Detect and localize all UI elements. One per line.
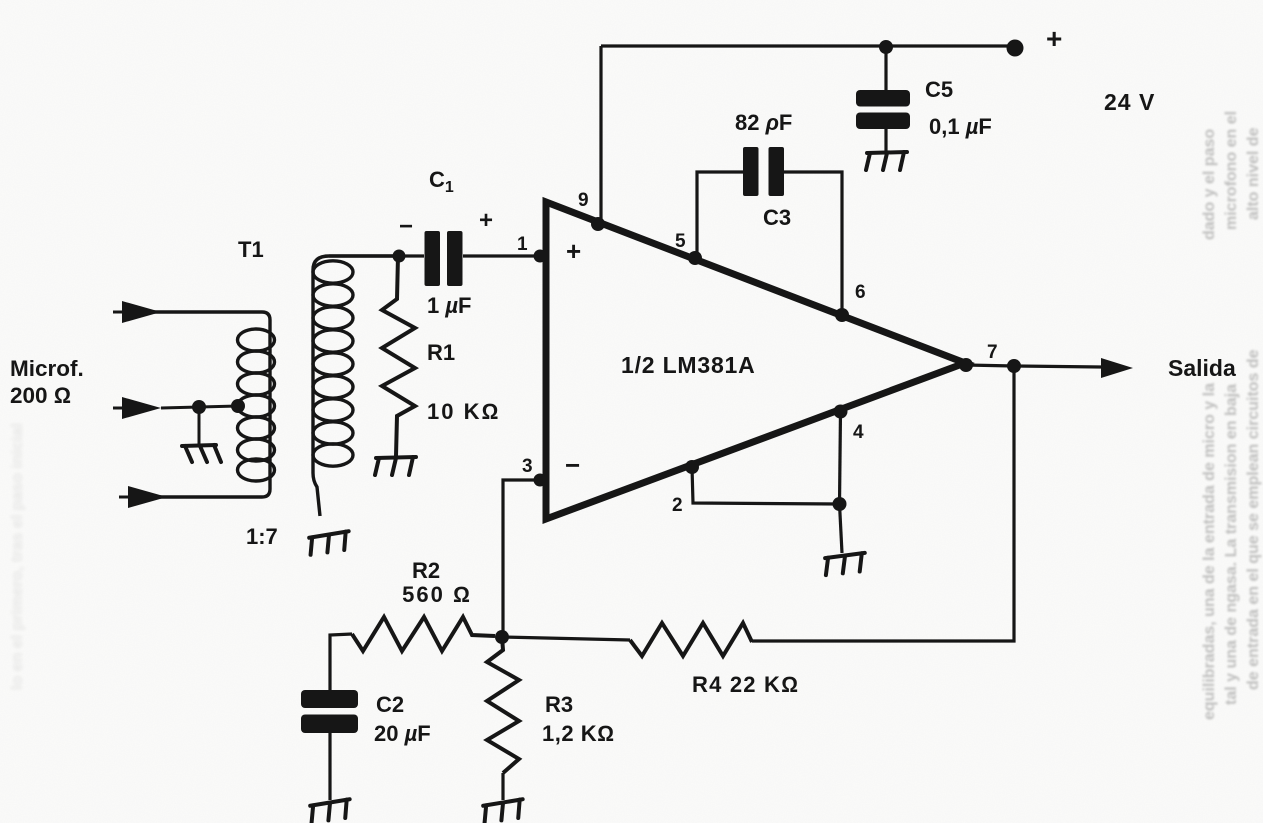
svg-text:3: 3	[522, 456, 533, 477]
svg-text:1 µF: 1 µF	[427, 293, 472, 318]
wire: vertical from rail down to pin 9	[599, 46, 602, 224]
wire: C5 stem upper	[884, 46, 887, 90]
wire: C1 right lead to pin 1	[463, 254, 540, 257]
svg-text:tal y una de ngasa. La transmi: tal y una de ngasa. La transmision en ba…	[1223, 384, 1240, 705]
wire: secondary top lead to C1 junction	[329, 254, 399, 257]
svg-text:R1: R1	[427, 340, 455, 365]
capacitor C2 plates	[301, 690, 358, 708]
supply terminal node	[1007, 40, 1024, 57]
wire: R2 left lead down to C2	[330, 634, 352, 690]
svg-text:0,1 µF: 0,1 µF	[929, 114, 992, 139]
wire: C2 lower stem to ground	[328, 733, 331, 800]
svg-text:6: 6	[855, 282, 866, 303]
resistor R4 22 Kohm	[630, 623, 752, 656]
svg-text:560 Ω: 560 Ω	[402, 582, 472, 607]
input arrow bottom	[119, 496, 129, 499]
wire: pin 3 lead left and down to feedback node	[503, 480, 540, 637]
transformer T1 primary frame	[153, 312, 270, 497]
junction node tap left	[192, 400, 206, 414]
svg-text:equilibradas, una de la entrad: equilibradas, una de la entrada de micro…	[1201, 383, 1218, 720]
faint print bleed left edge	[9, 423, 26, 690]
svg-text:lo en el primero, tras el paso: lo en el primero, tras el paso inicial	[9, 423, 26, 690]
pin 2 node	[685, 460, 699, 474]
svg-text:4: 4	[853, 422, 864, 443]
input arrow middle	[113, 407, 123, 410]
svg-text:microfono en el: microfono en el	[1223, 111, 1240, 230]
wire: pin 7 output lead	[966, 365, 1101, 367]
svg-text:2: 2	[672, 495, 683, 516]
output arrow Salida	[1101, 358, 1133, 378]
svg-text:1,2 KΩ: 1,2 KΩ	[542, 721, 614, 746]
svg-text:dado y el paso: dado y el paso	[1201, 129, 1218, 240]
input arrow top	[113, 311, 123, 314]
wire: node to R4 left	[502, 637, 630, 640]
svg-text:7: 7	[987, 342, 998, 363]
ground under C2	[309, 799, 352, 823]
wire: pin 4 down	[840, 412, 841, 505]
transformer T1 secondary loops	[313, 261, 353, 466]
faint print bleed right edge	[1201, 111, 1262, 720]
junction node at C5	[879, 40, 893, 54]
svg-text:9: 9	[578, 190, 589, 211]
junction node tap at coil	[231, 399, 245, 413]
svg-text:20 µF: 20 µF	[374, 721, 431, 746]
wire: pin2/4 node to ground	[840, 504, 843, 553]
svg-text:−: −	[565, 450, 580, 480]
svg-text:Microf.: Microf.	[10, 356, 84, 381]
svg-text:1:7: 1:7	[246, 524, 278, 549]
wire: C3 right leg to pin 6	[784, 172, 842, 315]
pin 5 node	[688, 251, 702, 265]
svg-text:de entrada en el que se emplea: de entrada en el que se emplean circuito…	[1245, 349, 1262, 690]
svg-text:1: 1	[517, 234, 528, 255]
ground under pins 2/4	[824, 553, 867, 575]
svg-text:+: +	[1046, 23, 1062, 54]
svg-text:+: +	[479, 207, 493, 234]
svg-text:alto nivel de: alto nivel de	[1245, 127, 1262, 220]
wire: tap ground stem	[198, 408, 201, 444]
wire: middle arrow to tap	[161, 406, 238, 408]
resistor R1 10 Kohm	[382, 256, 415, 456]
capacitor C3 plates	[743, 147, 759, 196]
svg-text:24 V: 24 V	[1104, 89, 1155, 115]
pin 4 node	[834, 405, 848, 419]
svg-text:C5: C5	[925, 77, 953, 102]
resistor R2 560 ohm	[352, 617, 495, 651]
output junction node	[1007, 359, 1021, 373]
svg-text:C3: C3	[763, 205, 791, 230]
feedback junction node	[495, 630, 509, 644]
wire: output node down to R4	[752, 366, 1014, 641]
pin 6 node	[835, 308, 849, 322]
wire: pin 2 down and right	[692, 467, 839, 504]
svg-text:Salida: Salida	[1168, 355, 1236, 381]
resistor R3 1,2 Kohm	[487, 637, 519, 773]
pin 1 node	[534, 250, 547, 263]
ground at transformer tap	[182, 445, 221, 462]
pin 7 node	[959, 358, 973, 372]
svg-text:+: +	[566, 236, 581, 266]
op-amp U1 1/2 LM381A triangle	[546, 202, 965, 519]
svg-text:200 Ω: 200 Ω	[10, 383, 71, 408]
capacitor C1 plates	[425, 231, 441, 286]
pin 9 node	[591, 217, 605, 231]
svg-text:T1: T1	[238, 237, 264, 262]
wire: R3 lower stem to ground	[501, 773, 504, 800]
ground under R1	[375, 457, 416, 475]
junction node pins 2/4	[833, 497, 847, 511]
svg-text:−: −	[399, 213, 413, 240]
svg-text:1/2 LM381A: 1/2 LM381A	[621, 352, 756, 378]
wire: C5 stem lower	[884, 129, 887, 151]
pin 3 node	[534, 474, 547, 487]
ground under secondary	[308, 531, 351, 555]
ground under R3	[482, 799, 525, 823]
wire: C3 left leg from pin 5	[697, 172, 743, 258]
junction node at C1/R1/secondary	[393, 250, 406, 263]
capacitor C5 plates	[856, 90, 910, 107]
svg-text:82 ρF: 82 ρF	[735, 110, 792, 135]
wire: C1 left lead	[399, 254, 424, 257]
transformer T1 secondary frame	[313, 256, 399, 516]
transformer T1 primary loops	[238, 329, 275, 481]
svg-text:R2: R2	[412, 558, 440, 583]
ground under C5	[866, 152, 907, 170]
svg-text:R4 22 KΩ: R4 22 KΩ	[692, 672, 799, 697]
svg-text:10 KΩ: 10 KΩ	[427, 399, 500, 424]
svg-text:C2: C2	[376, 692, 404, 717]
svg-text:5: 5	[675, 231, 686, 252]
wire: V+ rail top	[601, 44, 1015, 47]
svg-text:R3: R3	[545, 692, 573, 717]
